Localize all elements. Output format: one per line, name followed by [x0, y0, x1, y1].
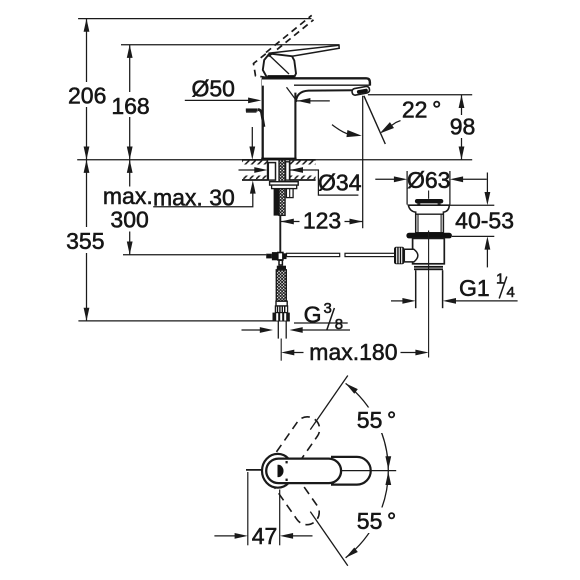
206 arrows	[84, 19, 90, 32]
svg-text:G: G	[304, 302, 322, 328]
svg-text:Ø34: Ø34	[318, 170, 362, 196]
spout beam fill	[262, 77, 370, 85]
rod coupling lower stub	[279, 260, 282, 265]
deck reference line (long thin)	[77, 159, 472, 161]
drain flange body	[408, 205, 449, 233]
Ø63 arrow left	[394, 176, 407, 182]
max.180 arrow left	[281, 350, 294, 356]
svg-text:40-53: 40-53	[455, 207, 514, 233]
47 extension lines	[247, 472, 249, 545]
mounting stud left in hole	[268, 163, 275, 181]
Ø34 dimension over deck	[239, 170, 359, 195]
extension line 168 level	[121, 44, 340, 46]
max.300 arrows	[127, 160, 133, 173]
pop-up pull rod vertical	[279, 216, 281, 253]
Ø50 arrow left	[248, 98, 261, 104]
168 arrows	[127, 45, 133, 58]
47 arrow left	[235, 533, 248, 539]
123 arrow left	[281, 219, 294, 225]
G3/8 leader underline	[294, 322, 348, 324]
rubber seal ring	[406, 233, 452, 239]
faucet body fill	[262, 78, 297, 160]
faucet base line on deck	[261, 158, 296, 161]
svg-text:3: 3	[324, 300, 332, 317]
47 arrow right	[280, 533, 293, 539]
svg-text:168: 168	[111, 93, 149, 119]
svg-text:98: 98	[450, 114, 476, 140]
40-53 bottom reference line	[452, 235, 494, 237]
rod coupling right piece	[283, 253, 287, 259]
rod knurled knob	[394, 247, 404, 265]
Ø34 arrow left	[254, 167, 267, 173]
handle skirt crease	[270, 56, 289, 74]
flange inner wall lines	[417, 214, 419, 233]
svg-text:max. 30: max. 30	[153, 185, 235, 211]
washer under deck	[270, 182, 299, 185]
faucet body left edge	[262, 78, 264, 160]
22° leader arrowhead	[378, 122, 394, 136]
40-53 top reference line	[449, 204, 494, 206]
radial line -55	[310, 512, 348, 566]
spout outlet extension line	[362, 96, 364, 229]
Ø34 arrow right	[290, 167, 303, 173]
G3/8 arrow right	[290, 327, 303, 333]
svg-text:22 °: 22 °	[402, 96, 441, 122]
Ø50 leader underline	[185, 99, 249, 101]
horizontal pop-up rod segment 2 (after break)	[345, 253, 396, 256]
dimension line 355	[86, 160, 88, 227]
Ø50 right arrow shaft	[297, 100, 330, 102]
355 arrows	[84, 160, 90, 173]
hose hex nut G3/8	[273, 313, 290, 322]
dimension 123 shafts	[281, 221, 300, 223]
handle skirt bottom seam	[268, 75, 295, 78]
98 arrow bottom	[459, 147, 465, 160]
svg-text:max.180: max.180	[309, 339, 397, 365]
40-53 pointer lines	[486, 173, 488, 194]
G1 1/4 arrow right	[443, 298, 456, 304]
flexible braided hose (mesh)	[276, 270, 286, 301]
47 dimension shafts	[214, 535, 235, 537]
drain centre line stub above cap	[428, 191, 430, 199]
countertop deck left part	[242, 160, 268, 180]
raised handle skirt (dashed)	[254, 54, 266, 78]
G3/8 arrow shafts	[242, 329, 261, 331]
max.30 arrows	[249, 147, 255, 160]
svg-text:max.: max.	[103, 183, 153, 209]
Ø63 dimension shafts	[375, 178, 394, 180]
tail pipe G1 1/4	[415, 270, 417, 308]
dimension line 206	[86, 19, 88, 82]
horizontal pop-up rod segment 1	[287, 253, 340, 256]
max.30 upper pointer line	[251, 127, 253, 147]
flange neck line	[416, 213, 444, 215]
text halo lower	[354, 508, 398, 534]
40-53 arrow bottom	[485, 236, 491, 249]
knob connector piece	[404, 249, 418, 262]
svg-text:300: 300	[110, 207, 148, 233]
lever rotated -55 (dashed)	[261, 454, 324, 529]
arrowheads left dimensions	[84, 19, 256, 321]
faucet centre line bottom	[280, 339, 282, 361]
spout top edge	[262, 78, 370, 85]
hose collar	[276, 301, 287, 306]
angle arc upper	[346, 383, 389, 470]
lever handle skirt	[263, 54, 296, 78]
mounting stud right in hole	[286, 162, 290, 180]
rod coupling block	[272, 252, 278, 260]
Ø63 extension lines	[406, 171, 408, 205]
55° lower arc arrowhead at centre line	[385, 472, 391, 485]
threaded shank (mesh)	[279, 160, 285, 216]
lever grip top view	[266, 459, 341, 484]
svg-text:206: 206	[68, 83, 106, 109]
flexible hose top band	[277, 266, 286, 270]
spout underside curve	[296, 90, 354, 102]
drain centre line	[428, 231, 430, 312]
98 top reference line	[368, 94, 472, 96]
98 arrow top	[459, 95, 465, 108]
svg-text:Ø63: Ø63	[407, 167, 450, 193]
countertop deck right part	[290, 160, 316, 180]
G3/8 supply pipe	[277, 321, 279, 338]
aerator outlet	[352, 86, 371, 96]
radial line +55	[310, 376, 348, 430]
G1 1/4 leader underline	[446, 300, 518, 302]
55° upper arc arrowhead at radial	[344, 381, 358, 394]
22° water stream line	[364, 96, 385, 144]
anti-rotation tab	[286, 189, 293, 198]
55° upper arc arrowhead at centre line	[385, 456, 391, 469]
123 arrow right	[350, 219, 363, 225]
Ø50 diagonal slash	[287, 87, 297, 101]
svg-text:55 °: 55 °	[357, 508, 396, 534]
lever paddle outer outline	[331, 457, 371, 485]
text halo upper	[354, 408, 398, 434]
G1 1/4 arrow left	[402, 298, 415, 304]
rear tick line	[246, 469, 262, 471]
Ø50 arrow right	[297, 98, 310, 104]
plan centre line	[340, 470, 396, 472]
svg-text:G1: G1	[459, 275, 490, 301]
tail pipe collar bands	[414, 266, 443, 268]
dimension line max.300	[129, 160, 131, 187]
40-53 arrow top	[485, 192, 491, 205]
extension line top (206 level)	[78, 18, 311, 20]
drain plug cap	[415, 199, 443, 203]
22° leader line	[382, 121, 401, 132]
logo D mark	[278, 465, 284, 477]
pop-up rod actuator hook	[246, 108, 258, 111]
22° swivel arc arrow	[332, 125, 350, 135]
shank shadow bar	[274, 189, 279, 216]
lever handle raised (dashed) blade	[254, 15, 314, 77]
bottom reference line (355 end, G3/8 level)	[78, 320, 289, 322]
rod coupling white square	[278, 253, 283, 260]
hose knurled fitting	[275, 306, 287, 313]
swivel arc arrowhead	[346, 130, 362, 139]
max.30 leader underline	[153, 194, 253, 207]
faucet body right edge	[294, 93, 296, 160]
G3/8 arrow left	[260, 327, 273, 333]
max.180 arrow right	[415, 350, 428, 356]
spout bottom edge	[294, 84, 370, 86]
dash tick marks	[286, 461, 288, 463]
max.300 reference line / horizontal rod left	[123, 254, 266, 256]
lever handle blade	[270, 45, 340, 56]
drain centre line extension	[428, 311, 430, 358]
svg-text:123: 123	[303, 207, 341, 233]
svg-text:55 °: 55 °	[357, 407, 396, 433]
drain valve body	[413, 238, 445, 263]
max.180 shafts	[294, 352, 304, 354]
svg-text:47: 47	[252, 523, 278, 549]
svg-text:355: 355	[66, 228, 104, 254]
svg-text:4: 4	[507, 284, 515, 301]
flange top edge	[408, 204, 450, 206]
Ø63 arrow right	[450, 176, 463, 182]
55° lower arc arrowhead at radial	[344, 547, 358, 560]
svg-text:Ø50: Ø50	[191, 75, 234, 101]
dimension line 98	[461, 95, 463, 115]
escutcheon circle top view	[262, 454, 293, 488]
dimension line 168	[129, 45, 131, 92]
lever rotated +55 (dashed)	[261, 412, 324, 487]
angle arc lower	[346, 471, 389, 558]
svg-text:8: 8	[335, 316, 343, 333]
rod coupling black collar	[266, 254, 272, 259]
mounting nut	[272, 185, 297, 189]
G1 1/4 left shaft	[391, 300, 403, 302]
